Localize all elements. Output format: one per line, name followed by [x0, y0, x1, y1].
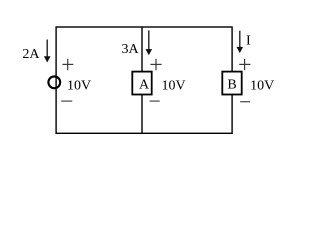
svg-text:10V: 10V [162, 78, 186, 93]
svg-text:10V: 10V [250, 78, 274, 93]
svg-text:I: I [246, 33, 251, 48]
svg-text:3A: 3A [122, 42, 140, 57]
svg-text:B: B [227, 78, 236, 93]
svg-text:10V: 10V [67, 78, 91, 93]
svg-text:2A: 2A [22, 47, 40, 62]
svg-text:A: A [139, 78, 150, 93]
